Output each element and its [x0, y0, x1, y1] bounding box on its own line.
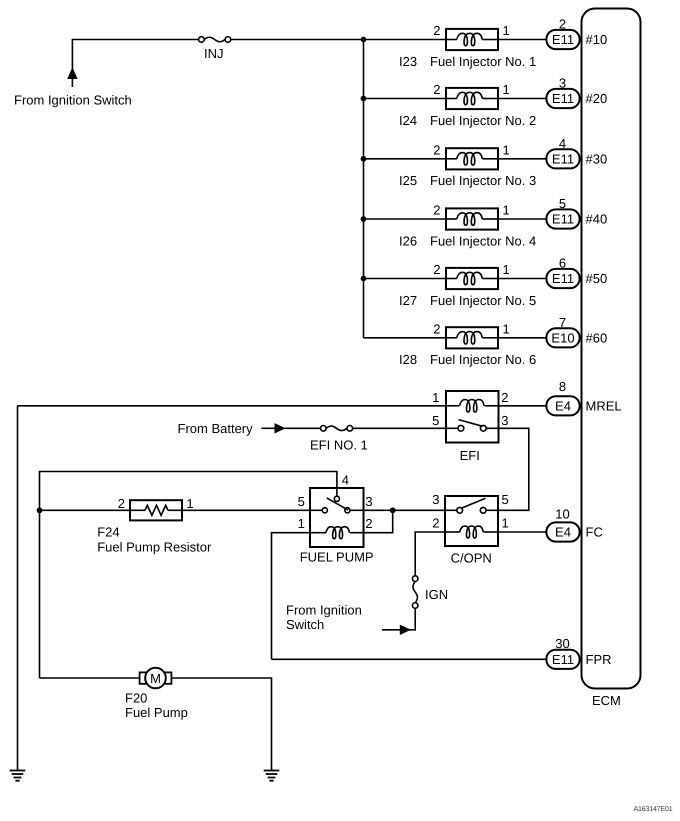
svg-text:A163147E01: A163147E01	[634, 806, 673, 813]
wire motor line (rail to motor to ground drop)	[40, 678, 272, 771]
svg-text:#10: #10	[586, 32, 608, 47]
connector E11 pin 3 (#20)	[546, 76, 607, 108]
svg-text:E11: E11	[552, 91, 574, 106]
svg-text:1: 1	[503, 203, 510, 218]
wire injector I23 pin 1 to connector	[498, 39, 546, 41]
wire B+ rail down to fuel pump motor	[39, 510, 41, 678]
wire injector I26 pin 1 to connector	[498, 218, 546, 220]
svg-text:E4: E4	[555, 525, 571, 540]
svg-text:C/OPN: C/OPN	[451, 551, 492, 566]
svg-text:Fuel Pump Resistor: Fuel Pump Resistor	[97, 540, 212, 555]
svg-text:#20: #20	[586, 91, 608, 106]
svg-text:3: 3	[501, 413, 508, 428]
svg-text:2: 2	[433, 262, 440, 277]
wire bus to injector I27	[364, 278, 447, 280]
fuel injector I23 (Fuel Injector No. 1)	[399, 23, 536, 69]
relay FUEL PUMP (pins 4,5,3 switch; 1,2 coil)	[298, 473, 374, 565]
svg-text:M: M	[150, 671, 161, 686]
fuel injector I26 (Fuel Injector No. 4)	[399, 203, 536, 249]
node From Ignition Switch label (top)	[14, 93, 132, 108]
svg-text:From Ignition: From Ignition	[286, 603, 362, 618]
ground (left)	[10, 771, 26, 781]
svg-text:5: 5	[559, 196, 566, 211]
svg-text:2: 2	[433, 321, 440, 336]
svg-text:Fuel Injector No. 2: Fuel Injector No. 2	[430, 113, 536, 128]
svg-text:E11: E11	[552, 32, 574, 47]
wire INJ fuse to injector bus	[231, 39, 446, 41]
fuel injector I25 (Fuel Injector No. 3)	[399, 142, 536, 188]
drawing number A163147E01	[634, 806, 673, 813]
node From Ignition Switch feed (bottom)	[286, 603, 410, 635]
svg-text:I26: I26	[399, 233, 417, 248]
svg-text:I25: I25	[399, 173, 417, 188]
wire bus to injector I28	[364, 337, 447, 339]
svg-text:Switch: Switch	[286, 617, 324, 632]
wire B+ rail top to FUEL PUMP pin 4	[40, 472, 337, 511]
wire from-ignition-switch feed to INJ fuse	[68, 40, 199, 88]
svg-text:FUEL PUMP: FUEL PUMP	[300, 550, 374, 565]
svg-text:30: 30	[555, 636, 569, 651]
svg-text:I28: I28	[399, 352, 417, 367]
svg-text:2: 2	[433, 23, 440, 38]
svg-text:1: 1	[432, 390, 439, 405]
wire rail to resistor F24	[40, 509, 131, 511]
svg-text:2: 2	[365, 516, 372, 531]
svg-text:2: 2	[559, 17, 566, 32]
wire bus to injector I25	[364, 158, 447, 160]
svg-text:F24: F24	[97, 525, 119, 540]
node junction B+ rail / resistor	[37, 508, 42, 513]
svg-text:#60: #60	[586, 331, 608, 346]
fuse INJ	[199, 37, 231, 61]
svg-text:EFI: EFI	[460, 448, 480, 463]
wire FUEL PUMP pin 2 jumper up to pin 3 wire	[364, 510, 393, 532]
wire ground rail left (EFI coil ground)	[17, 406, 19, 771]
svg-text:Fuel Injector No. 4: Fuel Injector No. 4	[430, 233, 536, 248]
fuse EFI NO. 1	[310, 426, 368, 453]
wire injector bus vertical	[363, 40, 365, 338]
svg-text:Fuel Injector No. 1: Fuel Injector No. 1	[430, 54, 536, 69]
svg-text:1: 1	[503, 142, 510, 157]
node junction pin3 wire / pin2 jumper	[390, 508, 395, 513]
svg-text:5: 5	[432, 413, 439, 428]
svg-text:E11: E11	[552, 271, 574, 286]
connector E11 pin 2 (#10)	[546, 17, 607, 49]
svg-text:Fuel Injector No. 6: Fuel Injector No. 6	[430, 352, 536, 367]
relay C/OPN (switch pins 3-5, coil pins 2-1)	[432, 492, 508, 566]
svg-text:4: 4	[559, 136, 566, 151]
svg-text:#50: #50	[586, 271, 608, 286]
svg-text:INJ: INJ	[204, 46, 224, 61]
svg-text:From Ignition Switch: From Ignition Switch	[14, 93, 132, 108]
svg-text:ECM: ECM	[592, 693, 621, 708]
fuel injector I24 (Fuel Injector No. 2)	[399, 82, 536, 128]
wire injector I28 pin 1 to connector	[498, 337, 546, 339]
svg-text:I27: I27	[399, 293, 417, 308]
node bus junction row 3	[361, 156, 366, 161]
svg-text:E11: E11	[552, 212, 574, 227]
svg-text:MREL: MREL	[586, 399, 622, 414]
svg-text:#40: #40	[586, 212, 608, 227]
svg-text:2: 2	[433, 142, 440, 157]
svg-text:2: 2	[433, 203, 440, 218]
connector E11 pin 4 (#30)	[546, 136, 607, 168]
connector E11 pin 30 (FPR)	[546, 636, 611, 669]
svg-text:Fuel Pump: Fuel Pump	[125, 705, 188, 720]
wire injector I27 pin 1 to connector	[498, 278, 546, 280]
svg-text:From Battery: From Battery	[178, 421, 254, 436]
connector E4 pin 8 (MREL)	[546, 379, 621, 415]
svg-text:1: 1	[503, 262, 510, 277]
node bus junction row 2	[361, 96, 366, 101]
wire FUEL PUMP pin 1 down to FPR line	[272, 533, 311, 660]
connector E10 pin 7 (#60)	[546, 315, 607, 347]
svg-text:10: 10	[555, 506, 569, 521]
fuel injector I28 (Fuel Injector No. 6)	[399, 321, 536, 367]
wire EFI NO. 1 fuse to EFI relay pin 5	[353, 427, 446, 429]
svg-text:I24: I24	[399, 113, 417, 128]
node bus junction row 1	[361, 37, 366, 42]
svg-text:E4: E4	[555, 398, 571, 413]
svg-text:FPR: FPR	[586, 652, 612, 667]
svg-text:Fuel Injector No. 5: Fuel Injector No. 5	[430, 293, 536, 308]
wire battery feed to EFI NO. 1 fuse	[285, 427, 321, 429]
svg-text:1: 1	[502, 516, 509, 531]
svg-text:2: 2	[433, 82, 440, 97]
svg-text:1: 1	[503, 82, 510, 97]
node bus junction row 5	[361, 276, 366, 281]
ECM	[582, 9, 641, 709]
wire EFI pin 3 down to C/OPN pin 5	[498, 428, 529, 510]
svg-text:#30: #30	[586, 152, 608, 167]
svg-text:7: 7	[559, 315, 566, 330]
wire bus to injector I26	[364, 218, 447, 220]
fuse IGN	[412, 576, 448, 609]
svg-text:5: 5	[298, 494, 305, 509]
svg-text:Fuel Injector No. 3: Fuel Injector No. 3	[430, 173, 536, 188]
node From Battery feed	[178, 421, 285, 436]
relay EFI (box, coil pins 1-2, switch pins 5-3)	[432, 390, 508, 463]
wire EFI pin 2 to connector E4 (MREL)	[499, 405, 547, 407]
svg-text:1: 1	[298, 516, 305, 531]
svg-text:3: 3	[432, 492, 439, 507]
svg-text:6: 6	[559, 256, 566, 271]
svg-text:1: 1	[503, 321, 510, 336]
wire C/OPN pin 1 to connector E4 (FC)	[498, 531, 546, 533]
svg-text:E11: E11	[552, 151, 574, 166]
svg-text:EFI NO. 1: EFI NO. 1	[310, 438, 368, 453]
wire FPR line to connector E11	[272, 658, 547, 660]
svg-text:4: 4	[342, 473, 349, 488]
svg-text:IGN: IGN	[425, 587, 448, 602]
svg-text:3: 3	[559, 76, 566, 91]
svg-text:I23: I23	[399, 54, 417, 69]
svg-text:1: 1	[186, 496, 193, 511]
connector E11 pin 6 (#50)	[546, 256, 607, 288]
fuel injector I27 (Fuel Injector No. 5)	[399, 262, 536, 308]
svg-text:F20: F20	[125, 691, 147, 706]
resistor F24 Fuel Pump Resistor	[97, 496, 212, 555]
wire C/OPN pin 2 down through IGN to ignition feed	[415, 532, 445, 576]
node bus junction row 4	[361, 217, 366, 222]
connector E4 pin 10 (FC)	[546, 506, 602, 541]
wire EFI pin 1 to ground rail	[18, 405, 447, 407]
wire injector I24 pin 1 to connector	[498, 98, 546, 100]
wire bus to injector I24	[364, 98, 447, 100]
svg-text:E11: E11	[552, 652, 574, 667]
wire injector I25 pin 1 to connector	[498, 158, 546, 160]
svg-text:8: 8	[559, 379, 566, 394]
connector E11 pin 5 (#40)	[546, 196, 607, 228]
svg-text:2: 2	[501, 390, 508, 405]
wire resistor to FUEL PUMP pin 5	[182, 509, 310, 511]
svg-text:3: 3	[365, 494, 372, 509]
svg-text:2: 2	[432, 516, 439, 531]
svg-text:2: 2	[118, 496, 125, 511]
wire FUEL PUMP pin 3 to C/OPN pin 3	[364, 509, 446, 511]
motor F20 Fuel Pump	[125, 668, 188, 720]
svg-text:E10: E10	[551, 330, 574, 345]
wire IGN fuse to ignition switch arrow	[400, 608, 415, 630]
svg-text:1: 1	[503, 23, 510, 38]
ground (center, fuel pump)	[264, 771, 280, 781]
svg-text:5: 5	[502, 492, 509, 507]
svg-text:FC: FC	[586, 525, 603, 540]
